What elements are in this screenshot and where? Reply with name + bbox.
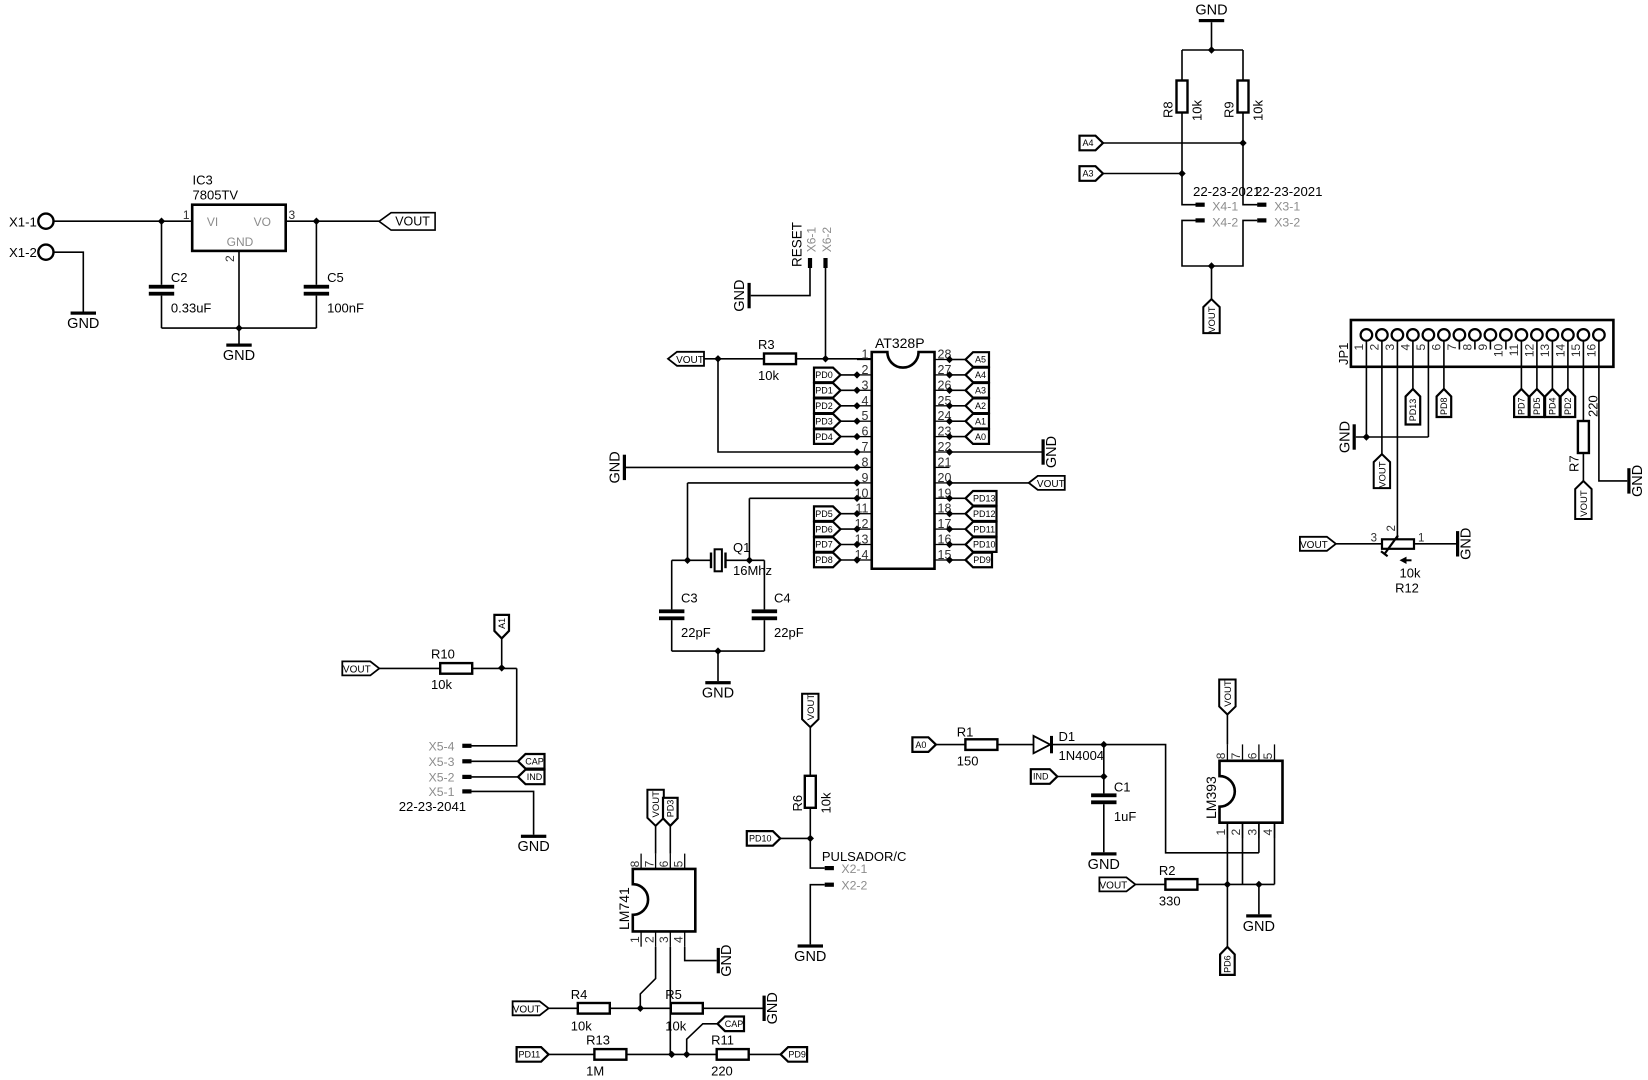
svg-text:GND: GND [702, 686, 734, 702]
svg-text:1: 1 [628, 936, 642, 943]
svg-text:IC3: IC3 [193, 173, 213, 188]
svg-text:10k: 10k [1251, 100, 1266, 121]
svg-text:2: 2 [1386, 525, 1398, 531]
svg-text:VOUT: VOUT [1378, 461, 1389, 488]
svg-text:R12: R12 [1395, 581, 1419, 596]
svg-text:2: 2 [642, 936, 656, 943]
svg-text:PD10: PD10 [749, 834, 772, 844]
svg-text:PD7: PD7 [815, 540, 833, 550]
svg-text:X3-2: X3-2 [1274, 215, 1300, 229]
svg-text:GND: GND [1337, 421, 1353, 453]
svg-text:1: 1 [183, 208, 190, 222]
svg-text:PD8: PD8 [815, 555, 833, 565]
svg-text:VOUT: VOUT [806, 694, 817, 721]
svg-text:X5-1: X5-1 [429, 785, 455, 799]
svg-text:A4: A4 [1082, 138, 1093, 148]
svg-text:VOUT: VOUT [1037, 479, 1065, 490]
svg-text:JP1: JP1 [1336, 343, 1351, 365]
svg-text:10k: 10k [1400, 566, 1421, 581]
svg-text:VOUT: VOUT [1100, 881, 1128, 892]
svg-text:2: 2 [1367, 343, 1381, 350]
svg-text:1: 1 [862, 348, 869, 362]
svg-text:AT328P: AT328P [875, 335, 925, 351]
svg-text:C2: C2 [171, 270, 188, 285]
svg-text:PD7: PD7 [1517, 397, 1527, 415]
svg-text:A4: A4 [975, 370, 986, 380]
svg-text:R4: R4 [571, 987, 588, 1002]
svg-text:100nF: 100nF [327, 300, 364, 315]
svg-text:PD5: PD5 [815, 509, 833, 519]
svg-text:VOUT: VOUT [1207, 306, 1218, 333]
svg-text:X4-2: X4-2 [1212, 215, 1238, 229]
svg-text:X5-4: X5-4 [429, 740, 455, 754]
svg-text:150: 150 [957, 754, 979, 769]
svg-text:R13: R13 [586, 1033, 610, 1048]
svg-text:0.33uF: 0.33uF [171, 300, 212, 315]
svg-text:R5: R5 [665, 987, 682, 1002]
svg-text:X6-2: X6-2 [820, 227, 834, 253]
svg-text:6: 6 [1246, 752, 1260, 759]
svg-text:IND: IND [1033, 772, 1049, 782]
svg-text:3: 3 [862, 378, 869, 392]
svg-text:PD6: PD6 [815, 524, 833, 534]
svg-text:X5-2: X5-2 [429, 771, 455, 785]
svg-text:GND: GND [223, 348, 255, 364]
svg-text:3: 3 [1246, 829, 1260, 836]
svg-text:C4: C4 [774, 591, 791, 606]
svg-text:5: 5 [1261, 752, 1275, 759]
svg-text:VOUT: VOUT [651, 791, 662, 818]
svg-text:PD3: PD3 [666, 800, 676, 818]
svg-text:R7: R7 [1567, 455, 1582, 472]
svg-text:7: 7 [1445, 343, 1459, 350]
svg-text:7805TV: 7805TV [193, 188, 239, 203]
svg-text:PD10: PD10 [973, 540, 996, 550]
svg-text:PD9: PD9 [973, 555, 991, 565]
svg-text:A5: A5 [975, 355, 986, 365]
svg-text:3: 3 [657, 936, 671, 943]
svg-text:LM393: LM393 [1203, 776, 1219, 819]
svg-text:10k: 10k [431, 677, 452, 692]
svg-text:PD11: PD11 [518, 1050, 540, 1060]
svg-text:R6: R6 [790, 795, 805, 812]
svg-text:5: 5 [862, 409, 869, 423]
svg-text:1M: 1M [586, 1064, 604, 1079]
svg-text:X2-2: X2-2 [841, 878, 867, 892]
svg-text:6: 6 [1429, 343, 1443, 350]
svg-text:LM741: LM741 [616, 887, 632, 930]
svg-text:GND: GND [719, 944, 735, 976]
svg-text:R11: R11 [711, 1033, 734, 1048]
svg-text:5: 5 [671, 860, 685, 867]
svg-text:CAP: CAP [725, 1019, 744, 1029]
svg-text:1uF: 1uF [1114, 809, 1136, 824]
svg-text:PD5: PD5 [1532, 397, 1542, 415]
svg-text:16: 16 [1584, 343, 1598, 357]
svg-text:PD13: PD13 [973, 494, 996, 504]
svg-text:PD12: PD12 [973, 509, 996, 519]
svg-text:VI: VI [207, 215, 218, 229]
svg-text:GND: GND [517, 839, 549, 855]
svg-text:PD9: PD9 [788, 1050, 806, 1060]
svg-text:A0: A0 [915, 740, 926, 750]
svg-text:PD4: PD4 [1548, 397, 1558, 415]
svg-text:GND: GND [67, 316, 99, 332]
svg-text:22-23-2041: 22-23-2041 [399, 799, 466, 814]
svg-text:14: 14 [1553, 343, 1567, 357]
svg-text:1: 1 [1214, 829, 1228, 836]
svg-text:10: 10 [1491, 343, 1505, 357]
svg-text:IND: IND [527, 772, 543, 782]
svg-text:Q1: Q1 [733, 540, 750, 555]
svg-text:PD8: PD8 [1439, 397, 1449, 415]
svg-text:VOUT: VOUT [1579, 490, 1590, 517]
svg-text:R8: R8 [1161, 101, 1176, 118]
svg-text:10k: 10k [1190, 100, 1205, 121]
svg-text:VOUT: VOUT [395, 215, 430, 229]
svg-text:A1: A1 [497, 618, 507, 629]
svg-text:PD1: PD1 [815, 386, 833, 396]
svg-text:2: 2 [223, 255, 237, 262]
svg-text:11: 11 [1507, 343, 1521, 356]
svg-text:15: 15 [1569, 343, 1583, 357]
svg-text:VOUT: VOUT [343, 665, 371, 676]
svg-text:X2-1: X2-1 [841, 862, 867, 876]
svg-text:GND: GND [1243, 919, 1275, 935]
svg-text:GND: GND [227, 235, 254, 249]
svg-text:VOUT: VOUT [676, 355, 704, 366]
svg-text:16Mhz: 16Mhz [733, 563, 772, 578]
svg-text:12: 12 [1522, 343, 1536, 357]
svg-text:GND: GND [794, 949, 826, 965]
svg-text:4: 4 [862, 394, 869, 408]
svg-text:X5-3: X5-3 [429, 755, 455, 769]
svg-text:A3: A3 [975, 386, 986, 396]
svg-text:A1: A1 [975, 416, 986, 426]
svg-text:C3: C3 [681, 591, 698, 606]
svg-text:8: 8 [628, 860, 642, 867]
svg-text:VOUT: VOUT [513, 1004, 541, 1015]
svg-text:2: 2 [1229, 829, 1243, 836]
svg-text:22-23-2021: 22-23-2021 [1255, 184, 1322, 199]
svg-text:VOUT: VOUT [1223, 680, 1234, 707]
svg-text:6: 6 [657, 860, 671, 867]
svg-text:PD6: PD6 [1223, 955, 1233, 973]
svg-text:4: 4 [671, 936, 685, 943]
svg-text:PD13: PD13 [1408, 399, 1418, 422]
svg-text:CAP: CAP [525, 757, 544, 767]
svg-text:X6-1: X6-1 [805, 227, 819, 253]
svg-text:1N4004: 1N4004 [1059, 748, 1105, 763]
svg-text:R2: R2 [1159, 863, 1176, 878]
svg-text:C5: C5 [327, 270, 344, 285]
svg-text:8: 8 [1214, 752, 1228, 759]
svg-text:10k: 10k [665, 1019, 686, 1034]
svg-text:D1: D1 [1059, 729, 1076, 744]
svg-text:GND: GND [765, 992, 781, 1024]
svg-text:3: 3 [1371, 533, 1377, 545]
svg-text:22pF: 22pF [681, 625, 711, 640]
svg-text:X1-2: X1-2 [9, 245, 37, 260]
svg-text:PD2: PD2 [1563, 397, 1573, 415]
svg-text:1: 1 [1418, 533, 1424, 545]
svg-text:22pF: 22pF [774, 625, 804, 640]
svg-text:PD2: PD2 [815, 401, 833, 411]
svg-text:9: 9 [862, 471, 869, 485]
svg-text:220: 220 [711, 1064, 733, 1079]
svg-text:7: 7 [1229, 752, 1243, 759]
svg-text:8: 8 [1460, 343, 1474, 350]
svg-text:R9: R9 [1222, 101, 1237, 118]
svg-text:GND: GND [1459, 528, 1475, 560]
svg-text:PD4: PD4 [815, 432, 833, 442]
svg-text:6: 6 [862, 425, 869, 439]
svg-text:A2: A2 [975, 401, 986, 411]
svg-text:PD0: PD0 [815, 370, 833, 380]
svg-text:R3: R3 [758, 337, 775, 352]
svg-text:GND: GND [608, 451, 624, 483]
svg-text:330: 330 [1159, 894, 1181, 909]
svg-text:10k: 10k [571, 1019, 592, 1034]
svg-text:3: 3 [289, 208, 296, 222]
svg-text:10k: 10k [819, 792, 834, 813]
svg-text:X3-1: X3-1 [1274, 200, 1300, 214]
svg-text:GND: GND [732, 279, 748, 311]
svg-text:R10: R10 [431, 647, 455, 662]
svg-text:2: 2 [862, 363, 869, 377]
svg-text:GND: GND [1195, 3, 1227, 19]
svg-text:9: 9 [1476, 343, 1490, 350]
svg-text:1: 1 [1352, 343, 1366, 350]
svg-text:8: 8 [862, 455, 869, 469]
svg-text:PD3: PD3 [815, 416, 833, 426]
svg-text:GND: GND [1044, 436, 1060, 468]
svg-text:A0: A0 [975, 432, 986, 442]
svg-text:21: 21 [938, 455, 952, 469]
svg-text:7: 7 [642, 860, 656, 867]
svg-text:3: 3 [1383, 343, 1397, 350]
svg-text:GND: GND [1630, 465, 1646, 497]
svg-text:X4-1: X4-1 [1212, 200, 1238, 214]
svg-text:VOUT: VOUT [1300, 540, 1328, 551]
svg-text:C1: C1 [1114, 780, 1131, 795]
svg-text:VO: VO [254, 215, 271, 229]
svg-text:A3: A3 [1082, 169, 1093, 179]
svg-text:X1-1: X1-1 [9, 214, 37, 229]
svg-text:RESET: RESET [790, 222, 805, 267]
svg-text:13: 13 [1538, 343, 1552, 357]
svg-text:R1: R1 [957, 725, 974, 740]
svg-text:22-23-2021: 22-23-2021 [1193, 184, 1260, 199]
svg-text:GND: GND [1088, 857, 1120, 873]
svg-text:10k: 10k [758, 368, 779, 383]
svg-text:4: 4 [1261, 829, 1275, 836]
svg-text:5: 5 [1414, 343, 1428, 350]
svg-text:PD11: PD11 [973, 524, 995, 534]
svg-text:4: 4 [1398, 343, 1412, 350]
svg-text:7: 7 [862, 440, 869, 454]
